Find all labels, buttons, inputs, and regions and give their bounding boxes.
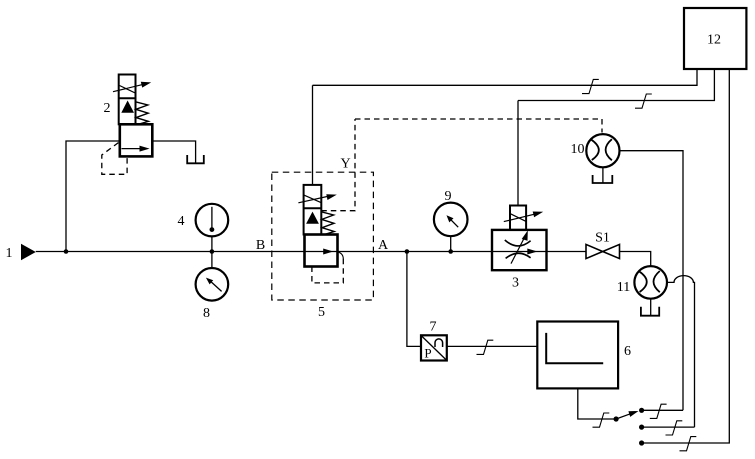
svg-text:5: 5 [318,305,325,320]
meter 11 signal wire with bridge [667,276,695,428]
valve 5 pilot stem to line Y [312,85,314,185]
break symbol f [666,421,683,435]
main pressure line [36,251,586,253]
signal line valve3 to controller 12 [518,69,714,101]
valve 2 body [120,124,153,156]
svg-text:1: 1 [6,246,13,261]
valve 3 body [492,230,547,270]
svg-text:B: B [256,238,265,253]
selector contact 2 [639,425,644,430]
svg-text:9: 9 [445,189,452,204]
valve 3 adjust arrow [511,237,525,264]
valve 2 proportional arrow [113,84,144,92]
valve 2 spring [136,102,149,124]
wire S1 to meter 11 [620,252,651,267]
selector wiper pivot [614,416,619,421]
valve 5 proportional arrow [298,196,329,203]
tank T2 [187,155,204,163]
valve 3 venturi arcs [505,240,531,246]
valve 3 signal stem [517,101,519,206]
selector feed wire [578,388,616,419]
valve 5 solenoid slash [304,195,321,202]
svg-text:8: 8 [203,306,210,321]
svg-text:10: 10 [571,142,585,157]
recorder trace [546,333,603,363]
selector contact 3 [639,440,644,445]
flow meter 11 [634,266,667,299]
break symbol g [680,437,697,451]
valve 3 flow arrowhead [527,249,537,255]
shutoff valve S1 [586,244,603,258]
dashed signal line Y to meter 10 [355,119,602,133]
contact 1 wire [642,409,683,411]
break symbol a [582,79,599,93]
valve 5 pilot dashed loop [312,259,343,283]
valve 5 Y pilot dashed [321,119,355,211]
gauge 4 thermometer [211,237,213,252]
node A junction [405,249,410,254]
wire 7 to recorder 6 [447,345,538,347]
contact 2 wire [642,426,695,428]
valve 3 proportional arrow [504,214,536,222]
gauge 8 pressure [211,252,213,269]
pump/source 1 [21,244,36,260]
valve 3 solenoid [510,206,526,230]
valve 2 poppet triangle [121,101,134,113]
svg-text:2: 2 [104,101,111,116]
meter 10 drain + tank [602,167,604,183]
svg-text:S1: S1 [595,231,610,246]
meter 10 signal wire [620,151,684,411]
break symbol d [593,413,610,427]
svg-text:4: 4 [178,214,185,229]
pressure transducer 7 wire [407,252,421,347]
dashed enclosure 5 [272,172,374,300]
selector wiper arm [616,414,631,419]
break symbol c [477,340,494,354]
signal line valve5 to controller 12 [313,69,698,85]
node P1 [64,249,69,254]
node gauge 9 tap [448,249,453,254]
svg-text:7: 7 [430,320,437,335]
valve 2 flow arrow [122,148,145,150]
transducer 7 box [421,335,447,360]
svg-text:6: 6 [624,344,631,359]
gauge 9 [450,236,452,251]
controller box 12 [684,8,746,69]
valve 5 body [305,235,338,267]
valve 5 solenoid/spring column [304,185,322,235]
svg-text:12: 12 [707,33,721,48]
valve 5 poppet triangle [306,212,319,224]
valve 2 pilot dashed loop [102,143,127,175]
flow meter 10 [586,134,619,167]
controller line to selector [642,69,730,443]
node gauge tap [210,249,215,254]
recorder box 6 [537,322,618,389]
valve 2 solenoid/spring column [119,75,136,125]
svg-text:3: 3 [512,276,519,291]
valve 5 spring [321,212,334,235]
valve 5 flow arrow [323,249,333,255]
svg-text:P: P [424,346,431,361]
selector contact 1 [639,408,644,413]
meter 11 drain + tank [650,299,652,316]
valve 2 solenoid slash [120,86,136,94]
valve 2 drain wire [152,141,195,163]
break symbol e [650,404,667,418]
wire to valve 2 [66,141,119,252]
valve 5 pilot tap curve [337,252,343,259]
svg-text:A: A [378,238,389,253]
svg-text:Y: Y [340,157,350,172]
svg-text:11: 11 [617,280,630,295]
transducer 7 dome [435,339,443,347]
break symbol b [635,94,652,108]
